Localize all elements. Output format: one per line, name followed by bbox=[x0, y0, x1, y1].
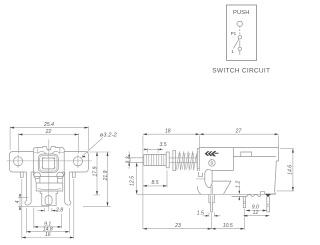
bottom tab bbox=[40, 191, 58, 206]
terminal inside body bbox=[211, 185, 212, 195]
hole centerline left bbox=[17, 155, 19, 168]
svg-text:4: 4 bbox=[15, 200, 21, 203]
wing slant right bbox=[61, 178, 64, 183]
clip circle left bbox=[34, 172, 41, 179]
barrel ribs bbox=[146, 154, 164, 165]
coil spring bbox=[176, 151, 197, 170]
plunger tip shaft bbox=[130, 158, 144, 163]
spring clip arc right bbox=[52, 151, 60, 153]
plunger rod hidden bbox=[169, 158, 197, 163]
dim 21.9 bbox=[83, 152, 111, 206]
svg-text:10.5: 10.5 bbox=[223, 223, 233, 229]
inner shelf lower bbox=[212, 180, 231, 182]
svg-text:ø3.2-2: ø3.2-2 bbox=[100, 132, 117, 138]
neck sides bbox=[40, 178, 58, 183]
vertical centerline bbox=[48, 140, 50, 212]
dim 4 bbox=[18, 194, 49, 210]
plunger opening ring bbox=[38, 154, 58, 172]
opening inner wall bbox=[40, 155, 57, 171]
svg-text:3.5: 3.5 bbox=[159, 142, 166, 148]
switch circuit box bbox=[227, 5, 257, 61]
dim 2.8 bbox=[38, 208, 59, 212]
svg-text:22: 22 bbox=[45, 129, 52, 135]
wall foot stub bbox=[198, 172, 202, 177]
latch bump bbox=[241, 152, 252, 157]
spring clip arc left bbox=[38, 151, 46, 153]
svg-text:3.3: 3.3 bbox=[126, 156, 132, 163]
logo mark bbox=[205, 151, 210, 156]
dim 14.8 bbox=[26, 208, 69, 233]
dim 1.5 bbox=[203, 213, 221, 217]
body corner clip left bbox=[34, 148, 38, 153]
pin right crimp marks bbox=[267, 204, 270, 207]
svg-text:8.5: 8.5 bbox=[151, 180, 158, 186]
svg-text:PUSH: PUSH bbox=[233, 10, 250, 16]
horizontal centerline bbox=[7, 160, 92, 162]
dim 18 bbox=[143, 133, 200, 229]
bottom notch 1 bbox=[247, 195, 252, 197]
flange bent tab right bbox=[72, 172, 75, 177]
dim 25.4 bbox=[10, 126, 88, 150]
pin middle crimp marks bbox=[243, 201, 245, 204]
body top edge bbox=[199, 147, 278, 149]
svg-text:17.9: 17.9 bbox=[93, 166, 99, 176]
dim 1.2 bbox=[238, 187, 240, 201]
clip circle right bbox=[57, 172, 64, 179]
body face step bbox=[233, 148, 276, 171]
flange bent tab left bbox=[21, 172, 24, 177]
dim 22 bbox=[19, 133, 79, 153]
mounting flange plate bbox=[10, 152, 89, 173]
inner shelf upper bbox=[212, 170, 233, 172]
leg inner lines bbox=[211, 196, 213, 203]
inner shelf line low bbox=[196, 178, 205, 180]
left terminal leg bbox=[209, 194, 214, 212]
svg-text:SWITCH CIRCUIT: SWITCH CIRCUIT bbox=[212, 67, 270, 74]
terminal pin right bbox=[267, 197, 270, 212]
tab slot bbox=[45, 196, 52, 205]
internal diagonal bbox=[223, 181, 231, 194]
dim 9.1 bbox=[34, 208, 62, 229]
svg-text:1: 1 bbox=[231, 49, 234, 54]
flange bottom inner segments bbox=[31, 171, 65, 173]
dim 17.9 bbox=[88, 152, 110, 195]
leader to hole bbox=[82, 138, 103, 157]
contact P1 circle bbox=[238, 36, 241, 39]
dim 3.3 bbox=[127, 151, 130, 169]
svg-text:27: 27 bbox=[235, 128, 242, 134]
body right edge bbox=[275, 148, 279, 194]
dim 14.6 bbox=[276, 149, 294, 191]
svg-text:18: 18 bbox=[165, 128, 171, 134]
body bottom left corner bbox=[197, 186, 201, 194]
lever return line bbox=[239, 40, 241, 47]
spring seat washer bbox=[166, 152, 169, 168]
wall spring slots bbox=[197, 152, 199, 168]
certification mark bbox=[209, 160, 216, 167]
square corner reliefs bbox=[42, 157, 55, 169]
body bottom right ledge bbox=[258, 192, 275, 197]
contact pedestal bbox=[205, 169, 212, 188]
switch lever bbox=[233, 39, 239, 49]
svg-text:21.9: 21.9 bbox=[103, 170, 109, 181]
dim 27 bbox=[200, 133, 279, 147]
mounting hole right bbox=[73, 157, 82, 166]
plunger barrel bbox=[144, 154, 166, 165]
body front wall bbox=[197, 148, 199, 171]
svg-text:23: 23 bbox=[174, 223, 181, 229]
svg-text:16: 16 bbox=[45, 232, 51, 238]
leg right bbox=[65, 172, 71, 205]
dim 16 bbox=[22, 179, 74, 239]
actuator hexagon symbol bbox=[237, 22, 243, 27]
terminal pin right head bbox=[265, 194, 271, 197]
body bottom edge segments bbox=[232, 195, 254, 197]
spring end bar bbox=[173, 151, 176, 171]
body corner clip right bbox=[60, 148, 64, 153]
switch body front outline bbox=[34, 147, 65, 177]
dim 12 bbox=[243, 215, 269, 217]
bottom notch 2 bbox=[253, 195, 258, 197]
svg-text:12.5: 12.5 bbox=[130, 176, 136, 186]
dim 23 bbox=[143, 213, 212, 230]
terminal pin middle bbox=[243, 196, 245, 207]
lower block bbox=[36, 183, 63, 191]
svg-text:1.5: 1.5 bbox=[197, 211, 204, 217]
seating plane line bbox=[137, 193, 276, 195]
dim 10.5 bbox=[212, 209, 245, 230]
dim 3.5 bbox=[144, 148, 164, 153]
svg-text:14.6: 14.6 bbox=[287, 165, 293, 175]
dim 12.5 bbox=[136, 163, 138, 195]
dim 8.5 bbox=[143, 170, 167, 187]
svg-text:S: S bbox=[210, 161, 213, 166]
svg-text:12: 12 bbox=[253, 210, 259, 216]
svg-text:25.4: 25.4 bbox=[43, 122, 54, 128]
svg-text:1.2: 1.2 bbox=[236, 181, 242, 188]
mounting hole left bbox=[14, 157, 23, 166]
terminal lead bbox=[239, 51, 241, 55]
plunger square bbox=[43, 158, 55, 169]
wing slant left bbox=[35, 178, 36, 183]
actuator dashed link bbox=[239, 26, 241, 36]
svg-text:P1: P1 bbox=[231, 31, 237, 36]
dim 9.0 bbox=[246, 210, 267, 212]
svg-text:2.8: 2.8 bbox=[55, 207, 63, 213]
lower block arc bbox=[38, 188, 61, 191]
leg left bbox=[25, 172, 31, 205]
hole centerline right bbox=[77, 155, 79, 168]
contact 1 circle bbox=[238, 47, 241, 50]
